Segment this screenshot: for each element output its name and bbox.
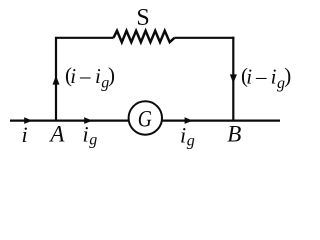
svg-text:i: i (83, 122, 89, 147)
svg-text:i: i (180, 123, 186, 148)
wire left vertical branch (55, 38, 57, 121)
arrow up (i - ig) left branch (53, 76, 60, 85)
svg-text:G: G (138, 106, 152, 132)
wire top right segment (175, 37, 235, 39)
svg-text:i: i (70, 64, 76, 88)
svg-text:–: – (255, 65, 267, 89)
svg-text:i: i (246, 65, 252, 89)
svg-text:): ) (108, 63, 115, 87)
arrow current ig (left of G) (84, 117, 92, 124)
svg-text:B: B (227, 122, 241, 147)
resistor S zigzag (114, 31, 175, 42)
svg-text:i: i (95, 64, 101, 88)
svg-text:g: g (89, 132, 97, 149)
wire top left segment (55, 37, 114, 39)
label (i - ig) left branch (65, 63, 115, 91)
svg-text:i: i (22, 122, 28, 147)
svg-text:g: g (187, 133, 195, 150)
wire bottom horizontal (10, 119, 280, 121)
label ig (right of G) (180, 123, 195, 150)
svg-text:A: A (48, 122, 65, 147)
label (i - ig) right branch (241, 63, 291, 92)
label ig (left of G) (83, 122, 98, 149)
svg-text:S: S (136, 5, 149, 31)
svg-text:i: i (271, 65, 277, 89)
galvanometer G (129, 101, 162, 134)
wire right vertical branch (232, 37, 234, 121)
svg-text:–: – (79, 64, 91, 88)
arrow down (i - ig) right branch (230, 74, 237, 83)
arrow current ig (right of G) (185, 117, 193, 124)
arrow current i (bottom left) (24, 117, 32, 124)
svg-text:): ) (284, 63, 291, 87)
